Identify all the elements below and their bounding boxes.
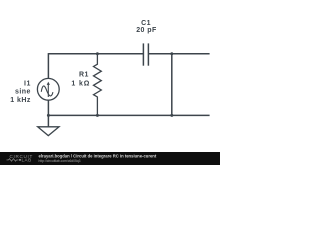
- ground: [38, 127, 59, 136]
- wire top from capacitor to right terminal: [148, 53, 209, 55]
- wire right vertical: [171, 54, 173, 116]
- junction dot node right bottom: [170, 114, 173, 117]
- current source I1: [37, 78, 59, 100]
- resistor R1: [94, 54, 102, 116]
- junction dot node resistor bottom: [96, 114, 99, 117]
- svg-text:elrayari.bogdan / Circuit de i: elrayari.bogdan / Circuit de integrare R…: [39, 153, 157, 158]
- wire left vertical lower (source bottom to ground): [47, 100, 49, 127]
- svg-text:1 kΩ: 1 kΩ: [71, 81, 90, 88]
- svg-text:1 kHz: 1 kHz: [10, 97, 31, 104]
- svg-text:LAB: LAB: [22, 158, 32, 163]
- svg-text:sine: sine: [15, 89, 31, 96]
- junction dot node capacitor-right top: [170, 52, 173, 55]
- capacitor C1: [143, 43, 148, 65]
- svg-text:I1: I1: [24, 81, 31, 88]
- footer CircuitLab logo: [7, 154, 34, 163]
- svg-text:http://circuitlab.com/c6d05q3: http://circuitlab.com/c6d05q3: [39, 159, 81, 163]
- wire left vertical upper (source top): [47, 53, 49, 78]
- svg-text:20 pF: 20 pF: [136, 27, 157, 34]
- junction dot node resistor top: [96, 52, 99, 55]
- footer watermark bar: [0, 152, 220, 165]
- wire top from source to capacitor: [48, 53, 143, 55]
- svg-text:R1: R1: [79, 71, 89, 78]
- wire bottom from ground node to right terminal: [48, 114, 209, 116]
- junction dot node ground: [47, 114, 50, 117]
